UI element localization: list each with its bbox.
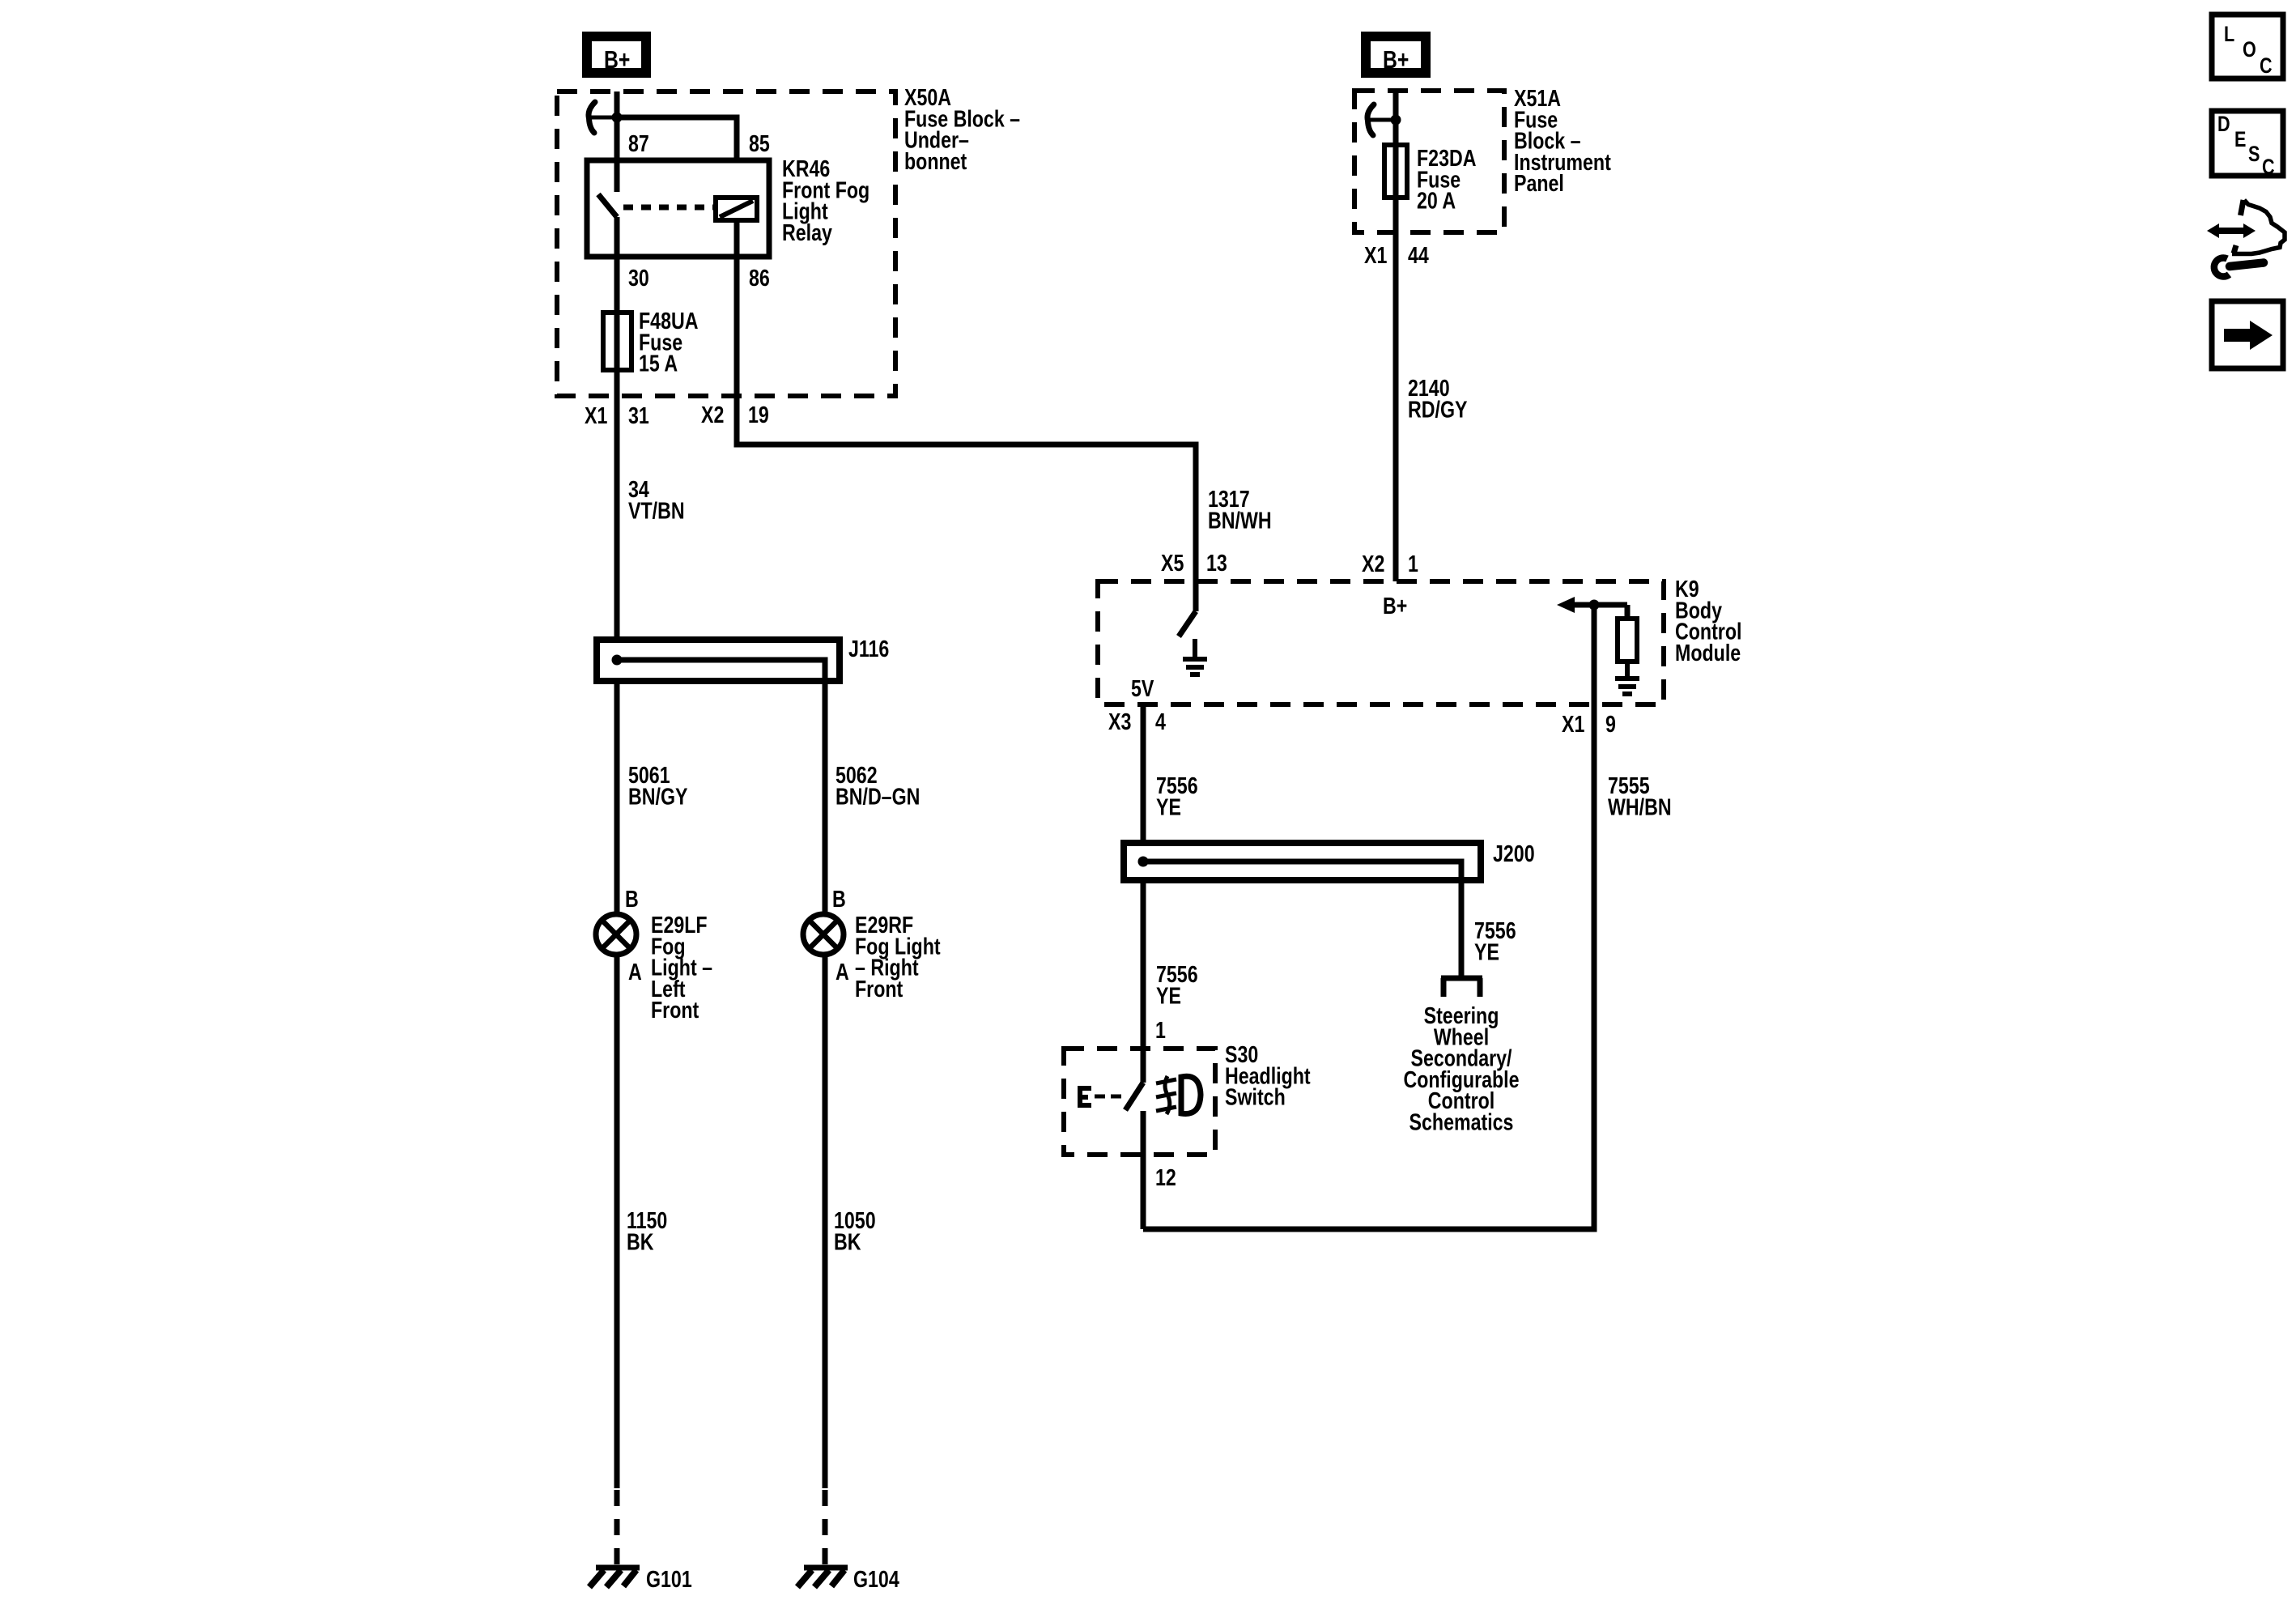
relay coil — [716, 198, 757, 220]
svg-text:D: D — [2217, 113, 2230, 137]
ground G101 — [589, 1568, 640, 1587]
KR46 label — [782, 155, 870, 245]
battery feed clip symbol — [1367, 104, 1374, 135]
splice pack J116 — [597, 640, 840, 681]
relay KR46 box — [587, 160, 769, 257]
BCM pull-up resistor — [1625, 605, 1631, 619]
wire 7556 YE to steering wheel schematics — [1459, 880, 1465, 977]
headlight switch S30 dashed box — [1064, 1049, 1215, 1155]
LOC icon — [2212, 15, 2283, 79]
S30 switch contact — [1141, 1049, 1146, 1083]
ground G104 — [797, 1568, 848, 1587]
wire 5062 BN/D-GN — [823, 681, 828, 914]
BCM internal switch — [1193, 581, 1199, 611]
pin 1 — [1155, 1016, 1166, 1043]
B+ net label inside BCM — [1383, 592, 1407, 619]
pin 85 — [749, 130, 770, 156]
wire 1050 BK — [823, 955, 828, 1488]
wire 1150 BK — [614, 955, 620, 1488]
svg-text:G101: G101 — [646, 1565, 692, 1592]
svg-text:B+: B+ — [604, 45, 630, 73]
switch E position symbol — [1078, 1086, 1091, 1108]
wire S30 pin 12 to BCM X1 9 — [1141, 1155, 1146, 1229]
BCM resistor ground — [1615, 662, 1639, 694]
svg-text:O: O — [2243, 38, 2256, 62]
wire coil to pin 86 — [734, 220, 740, 396]
wire 5061 BN/GY — [614, 681, 620, 914]
X50A label — [904, 83, 1020, 174]
svg-text:G104: G104 — [853, 1565, 899, 1592]
svg-text:A: A — [628, 958, 642, 985]
fuse F48UA — [603, 313, 631, 370]
svg-text:B: B — [832, 885, 846, 912]
svg-text:44: 44 — [1408, 241, 1429, 268]
svg-text:X5: X5 — [1161, 549, 1184, 576]
svg-text:4: 4 — [1155, 708, 1166, 734]
pin X3 4 — [1108, 708, 1131, 734]
battery feed clip symbol — [589, 102, 595, 133]
svg-text:J200: J200 — [1493, 840, 1535, 866]
wire 7555 WH/BN from X1 9 — [1143, 605, 1594, 1229]
fuse block X51A dashed box — [1354, 91, 1504, 232]
svg-text:X1: X1 — [585, 402, 607, 428]
svg-text:X1: X1 — [1364, 241, 1387, 268]
wire 7556 YE from J200 to S30 — [1141, 880, 1146, 1049]
svg-text:31: 31 — [628, 402, 649, 428]
DESC icon — [2212, 111, 2283, 180]
svg-text:B: B — [625, 885, 639, 912]
wire 1317 BN/WH from pin 19 to BCM X5 — [737, 396, 1196, 581]
relay actuation dashed link — [623, 205, 716, 211]
5V net label — [1131, 674, 1154, 701]
svg-text:12: 12 — [1155, 1164, 1176, 1190]
wire 7556 YE from X3 to J200 — [1141, 704, 1146, 843]
pin X2 1 — [1362, 550, 1384, 577]
svg-text:X3: X3 — [1108, 708, 1131, 734]
wire 2140 RD/GY label — [1408, 374, 1468, 422]
pin 86 — [749, 264, 770, 291]
svg-text:X2: X2 — [1362, 550, 1384, 577]
svg-text:B+: B+ — [1383, 45, 1409, 73]
adjust hand icon — [2207, 200, 2285, 277]
wire B+ feed to relay pin 87 — [614, 91, 620, 192]
B+ power symbol (left) — [587, 36, 646, 74]
svg-text:30: 30 — [628, 264, 649, 291]
pin B left — [625, 885, 639, 912]
svg-text:13: 13 — [1206, 549, 1227, 576]
connector pins X1 31 — [585, 402, 607, 428]
switch actuation dashes — [1095, 1095, 1122, 1099]
relay switch contact — [598, 194, 617, 217]
fog light left E29LF lamp — [596, 914, 636, 955]
next-page arrow icon — [2212, 301, 2283, 368]
svg-text:C: C — [2260, 54, 2273, 79]
svg-text:X1: X1 — [1562, 710, 1584, 737]
pin 30 — [628, 264, 649, 291]
svg-text:J116: J116 — [848, 635, 889, 662]
fuse block X50A dashed box — [557, 91, 895, 396]
svg-text:X2: X2 — [701, 401, 724, 428]
pin 12 — [1155, 1164, 1176, 1190]
dashed ground leads — [614, 1490, 620, 1566]
pin X5 13 — [1161, 549, 1184, 576]
off-page connector bracket — [1441, 978, 1482, 997]
wire from switch to pin 30 — [614, 217, 620, 313]
pin B right — [832, 885, 846, 912]
pin A left — [628, 958, 642, 985]
B+ power symbol (right) — [1366, 36, 1426, 74]
svg-text:S: S — [2248, 143, 2260, 167]
pin A right — [835, 958, 849, 985]
svg-text:B+: B+ — [1383, 592, 1407, 619]
pin 87 — [628, 130, 649, 156]
BCM sense input arrow — [1557, 597, 1575, 613]
connector pins X2 19 — [701, 401, 724, 428]
splice pack J200 — [1124, 843, 1481, 880]
fuse F23DA — [1384, 145, 1407, 198]
wire 34 VT/BN — [614, 396, 620, 640]
fog light icon in S30 — [1156, 1076, 1201, 1114]
svg-text:85: 85 — [749, 130, 770, 156]
svg-text:A: A — [835, 958, 849, 985]
svg-text:87: 87 — [628, 130, 649, 156]
svg-text:86: 86 — [749, 264, 770, 291]
svg-text:L: L — [2224, 23, 2234, 47]
svg-text:C: C — [2262, 155, 2275, 180]
steering wheel schematic reference text — [1403, 1002, 1519, 1135]
fog light right E29RF lamp — [803, 914, 844, 955]
svg-text:1: 1 — [1408, 550, 1418, 577]
BCM internal ground — [1183, 639, 1207, 674]
svg-text:5V: 5V — [1131, 674, 1154, 701]
svg-text:E: E — [2234, 128, 2246, 152]
wire branch to relay pin 85 — [617, 117, 737, 162]
svg-text:19: 19 — [748, 401, 769, 428]
connector pins X1 44 — [1364, 241, 1387, 268]
svg-text:9: 9 — [1605, 710, 1616, 737]
pin X1 9 — [1562, 710, 1584, 737]
svg-text:1: 1 — [1155, 1016, 1166, 1043]
wire B+ to fuse F23DA down to BCM X2 — [1393, 91, 1399, 581]
junction node — [612, 113, 623, 123]
body control module K9 dashed box — [1098, 581, 1664, 704]
